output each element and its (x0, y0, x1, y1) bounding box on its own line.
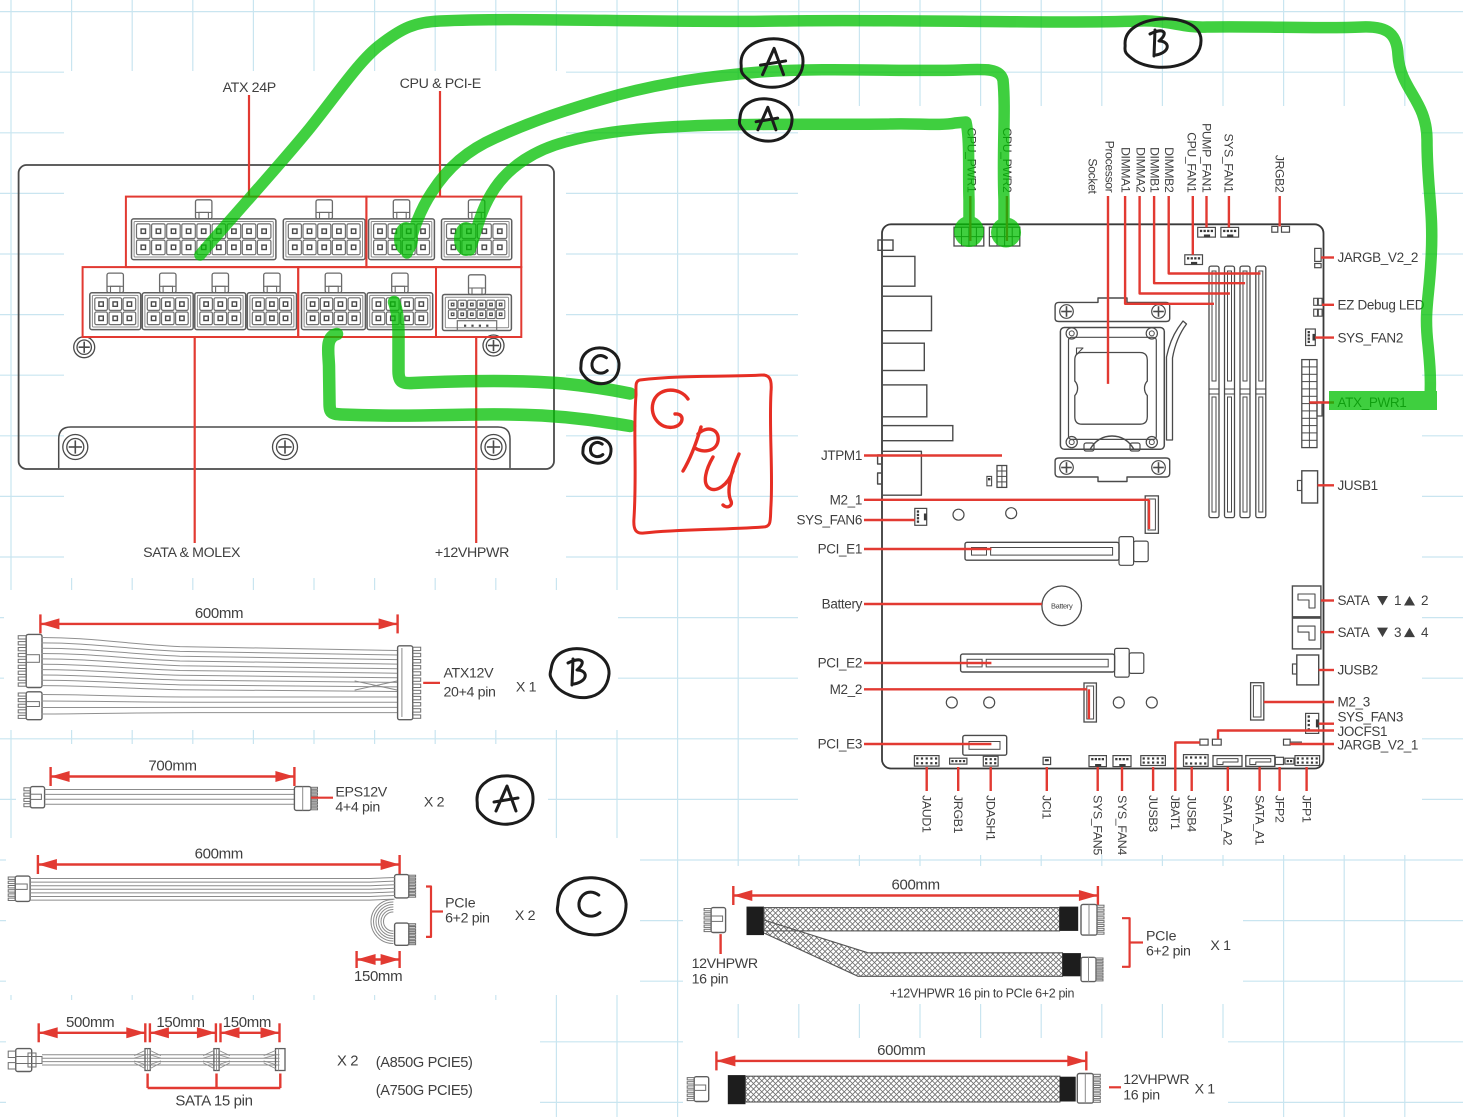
svg-text:DIMMA1: DIMMA1 (1119, 147, 1133, 193)
svg-text:PCI_E1: PCI_E1 (818, 542, 862, 557)
svg-text:SYS_FAN6: SYS_FAN6 (797, 513, 863, 528)
svg-text:M2_2: M2_2 (830, 682, 862, 697)
svg-text:EPS12V: EPS12V (335, 785, 387, 801)
svg-text:3: 3 (1394, 625, 1401, 640)
svg-text:JFP2: JFP2 (1272, 795, 1286, 823)
svg-text:JUSB2: JUSB2 (1338, 663, 1378, 678)
svg-text:4+4 pin: 4+4 pin (335, 799, 380, 815)
svg-text:Socket: Socket (1086, 158, 1100, 194)
svg-text:JBAT1: JBAT1 (1168, 795, 1182, 830)
svg-text:500mm: 500mm (66, 1014, 114, 1031)
svg-text:DIMMB1: DIMMB1 (1147, 147, 1161, 193)
svg-text:6+2 pin: 6+2 pin (445, 911, 490, 927)
svg-text:SATA_A1: SATA_A1 (1252, 795, 1266, 846)
svg-text:600mm: 600mm (877, 1042, 925, 1059)
svg-text:ATX 24P: ATX 24P (223, 80, 276, 96)
svg-text:Battery: Battery (822, 597, 863, 612)
svg-text:SYS_FAN5: SYS_FAN5 (1091, 795, 1105, 855)
svg-text:JRGB1: JRGB1 (951, 795, 965, 834)
svg-text:Processor: Processor (1103, 141, 1117, 193)
svg-text:(A750G PCIE5): (A750G PCIE5) (376, 1083, 473, 1099)
svg-text:X 2: X 2 (337, 1054, 358, 1070)
svg-text:X 1: X 1 (1195, 1082, 1216, 1098)
svg-text:CPU & PCI-E: CPU & PCI-E (400, 76, 481, 92)
svg-text:JARGB_V2_1: JARGB_V2_1 (1338, 738, 1419, 753)
svg-text:600mm: 600mm (195, 846, 243, 863)
svg-text:600mm: 600mm (891, 877, 939, 894)
svg-text:JTPM1: JTPM1 (821, 448, 862, 463)
svg-text:M2_3: M2_3 (1338, 695, 1370, 710)
svg-text:X 1: X 1 (516, 680, 537, 696)
svg-text:600mm: 600mm (195, 605, 243, 622)
svg-text:+12VHPWR 16 pin to PCIe 6+2 pi: +12VHPWR 16 pin to PCIe 6+2 pin (890, 987, 1075, 1001)
svg-text:SYS_FAN1: SYS_FAN1 (1222, 134, 1236, 193)
svg-text:4: 4 (1421, 625, 1429, 640)
svg-text:150mm: 150mm (156, 1014, 204, 1031)
svg-text:SATA: SATA (1338, 593, 1370, 608)
svg-text:SATA & MOLEX: SATA & MOLEX (143, 545, 241, 561)
svg-text:PCIe: PCIe (445, 896, 476, 912)
svg-text:JARGB_V2_2: JARGB_V2_2 (1338, 250, 1419, 265)
svg-text:Battery: Battery (1051, 602, 1073, 611)
svg-text:16 pin: 16 pin (1123, 1088, 1160, 1104)
svg-text:2: 2 (1421, 593, 1428, 608)
svg-text:SATA: SATA (1338, 625, 1370, 640)
svg-text:700mm: 700mm (148, 758, 196, 775)
svg-text:X 2: X 2 (515, 908, 536, 924)
svg-text:JDASH1: JDASH1 (984, 795, 998, 841)
svg-text:20+4 pin: 20+4 pin (444, 684, 496, 700)
svg-text:JUSB1: JUSB1 (1338, 478, 1378, 493)
svg-text:SYS_FAN3: SYS_FAN3 (1338, 710, 1404, 725)
svg-text:EZ Debug LED: EZ Debug LED (1338, 298, 1425, 313)
svg-text:SYS_FAN4: SYS_FAN4 (1115, 795, 1129, 855)
svg-text:DIMMA2: DIMMA2 (1133, 147, 1147, 193)
svg-text:JUSB4: JUSB4 (1185, 795, 1199, 832)
svg-text:JCI1: JCI1 (1040, 795, 1054, 820)
svg-text:PCI_E2: PCI_E2 (818, 656, 862, 671)
svg-text:M2_1: M2_1 (830, 493, 862, 508)
svg-text:150mm: 150mm (354, 968, 402, 985)
svg-text:DIMMB2: DIMMB2 (1162, 147, 1176, 193)
svg-text:CPU_FAN1: CPU_FAN1 (1184, 132, 1198, 193)
svg-text:X 2: X 2 (424, 794, 445, 810)
svg-text:JAUD1: JAUD1 (920, 795, 934, 833)
svg-text:JUSB3: JUSB3 (1146, 795, 1160, 832)
svg-text:X 1: X 1 (1210, 938, 1231, 954)
svg-text:PCIe: PCIe (1146, 928, 1177, 944)
svg-text:PCI_E3: PCI_E3 (818, 737, 862, 752)
svg-text:JFP1: JFP1 (1299, 795, 1313, 823)
svg-text:SATA_A2: SATA_A2 (1221, 795, 1235, 846)
svg-text:12VHPWR: 12VHPWR (692, 956, 758, 972)
svg-text:+12VHPWR: +12VHPWR (435, 545, 509, 561)
svg-text:16 pin: 16 pin (692, 972, 729, 988)
svg-text:1: 1 (1394, 593, 1401, 608)
svg-text:SYS_FAN2: SYS_FAN2 (1338, 330, 1404, 345)
svg-text:(A850G PCIE5): (A850G PCIE5) (376, 1055, 473, 1071)
svg-text:150mm: 150mm (223, 1014, 271, 1031)
svg-text:6+2 pin: 6+2 pin (1146, 944, 1191, 960)
svg-text:12VHPWR: 12VHPWR (1123, 1072, 1189, 1088)
svg-text:PUMP_FAN1: PUMP_FAN1 (1199, 123, 1213, 193)
svg-text:ATX12V: ATX12V (444, 666, 495, 682)
svg-text:JRGB2: JRGB2 (1273, 155, 1287, 193)
svg-text:SATA 15 pin: SATA 15 pin (175, 1093, 252, 1110)
